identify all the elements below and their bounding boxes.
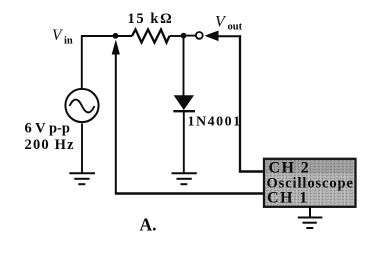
svg-text:CH 1: CH 1 [267, 190, 309, 207]
probe arrow: CH1 lead pointing up at Vin node [112, 40, 120, 55]
label 1N4001 [188, 115, 242, 130]
oscilloscope box [264, 159, 356, 207]
ground: under oscilloscope [298, 218, 323, 229]
wire: CH1 vertical lead [115, 50, 117, 194]
svg-text:CH 2: CH 2 [269, 160, 311, 177]
wire: arrow to CH2 drop corner [216, 35, 241, 37]
wire: AC source to ground [81, 124, 83, 173]
wire: junction to open terminal [184, 35, 196, 37]
node: Vout/diode junction dot [181, 33, 187, 39]
label 15 kΩ [128, 11, 174, 27]
diode D1 anode wire [183, 36, 185, 96]
svg-text:15 kΩ: 15 kΩ [128, 11, 174, 27]
wire: resistor to Vout junction [170, 35, 184, 37]
wire: CH2 vertical drop [239, 35, 241, 171]
diode D1 cathode wire to ground [183, 111, 185, 173]
wire: top node Vin corner to resistor [81, 35, 132, 37]
svg-text:V: V [52, 27, 63, 44]
svg-text:200 Hz: 200 Hz [25, 137, 75, 153]
diode D1 1N4001 [173, 95, 195, 111]
svg-text:A.: A. [140, 215, 157, 235]
AC source V1 [65, 89, 98, 122]
resistor R1 15 kΩ [132, 30, 170, 43]
svg-text:6 V p-p: 6 V p-p [25, 121, 70, 137]
label Vout [215, 14, 243, 33]
label 6 V p-p [25, 121, 70, 137]
wire: oscilloscope to ground [309, 206, 311, 218]
label Oscilloscope [267, 176, 354, 192]
label CH 2 [269, 160, 311, 177]
label Vin [52, 27, 73, 47]
svg-text:V: V [215, 14, 227, 31]
label CH 1 [267, 190, 309, 207]
svg-text:1N4001: 1N4001 [188, 115, 242, 130]
label A. [140, 215, 157, 235]
wire: Vin corner down to AC source top [81, 35, 83, 88]
label 200 Hz [25, 137, 75, 153]
svg-text:in: in [64, 36, 73, 47]
terminal: Vout open circle [196, 32, 203, 39]
node: Vin/R junction dot [113, 33, 119, 39]
svg-text:out: out [228, 22, 243, 33]
probe arrow: CH2 lead pointing left at Vout terminal [205, 31, 219, 42]
ground: under AC source [69, 173, 95, 184]
wire: CH2 into oscilloscope [239, 170, 265, 173]
wire: CH1 horizontal to oscilloscope [115, 192, 265, 195]
ground: under diode [172, 173, 197, 184]
